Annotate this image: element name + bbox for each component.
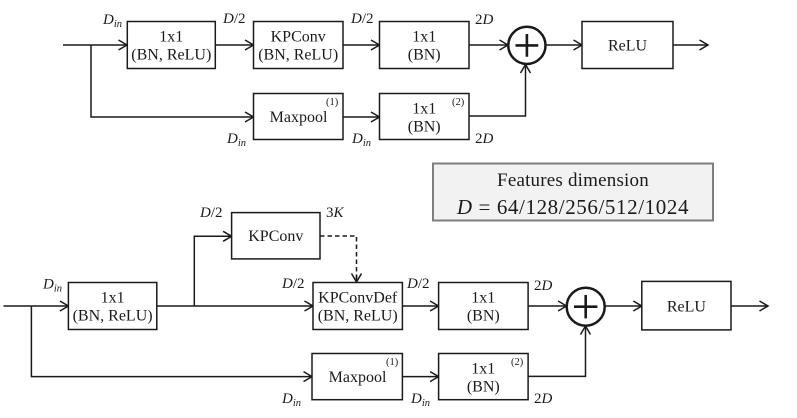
svg-text:Features dimension: Features dimension [497,170,649,191]
svg-text:KPConv: KPConv [271,29,326,46]
svg-text:Maxpool: Maxpool [270,109,328,126]
svg-text:D/2: D/2 [281,276,305,292]
svg-text:(2): (2) [511,357,524,368]
svg-text:2D: 2D [475,12,494,28]
svg-text:D/2: D/2 [199,205,223,221]
svg-text:D = 64/128/256/512/1024: D = 64/128/256/512/1024 [456,195,689,219]
svg-text:1x1: 1x1 [101,290,125,307]
svg-text:(BN, ReLU): (BN, ReLU) [73,308,153,325]
svg-text:2D: 2D [475,131,494,147]
svg-text:1x1: 1x1 [412,101,436,118]
svg-text:1x1: 1x1 [471,361,495,378]
svg-text:Maxpool: Maxpool [329,369,387,386]
svg-text:2D: 2D [534,391,553,407]
svg-text:Din: Din [102,12,122,30]
svg-text:1x1: 1x1 [412,29,436,46]
svg-text:Din: Din [281,391,301,409]
svg-text:(2): (2) [452,97,465,108]
svg-text:ReLU: ReLU [667,299,707,316]
svg-text:(BN, ReLU): (BN, ReLU) [258,47,338,64]
svg-text:(1): (1) [386,357,399,368]
svg-text:(BN): (BN) [467,308,500,325]
svg-text:1x1: 1x1 [159,29,183,46]
svg-text:KPConv: KPConv [248,228,303,245]
svg-text:(BN, ReLU): (BN, ReLU) [131,47,211,64]
svg-text:1x1: 1x1 [471,290,495,307]
svg-text:Din: Din [42,277,62,295]
svg-text:3K: 3K [326,205,345,221]
svg-text:(BN): (BN) [408,47,441,64]
svg-text:KPConvDef: KPConvDef [318,290,398,307]
svg-text:D/2: D/2 [406,276,430,292]
svg-text:(BN): (BN) [467,379,500,396]
svg-text:2D: 2D [534,278,553,294]
svg-text:ReLU: ReLU [608,38,648,55]
svg-text:Din: Din [410,391,430,409]
svg-text:(1): (1) [326,97,339,108]
svg-text:D/2: D/2 [222,11,246,27]
svg-text:D/2: D/2 [350,11,374,27]
svg-text:Din: Din [351,131,371,149]
svg-text:Din: Din [226,131,246,149]
svg-text:(BN, ReLU): (BN, ReLU) [318,308,398,325]
svg-text:(BN): (BN) [408,119,441,136]
